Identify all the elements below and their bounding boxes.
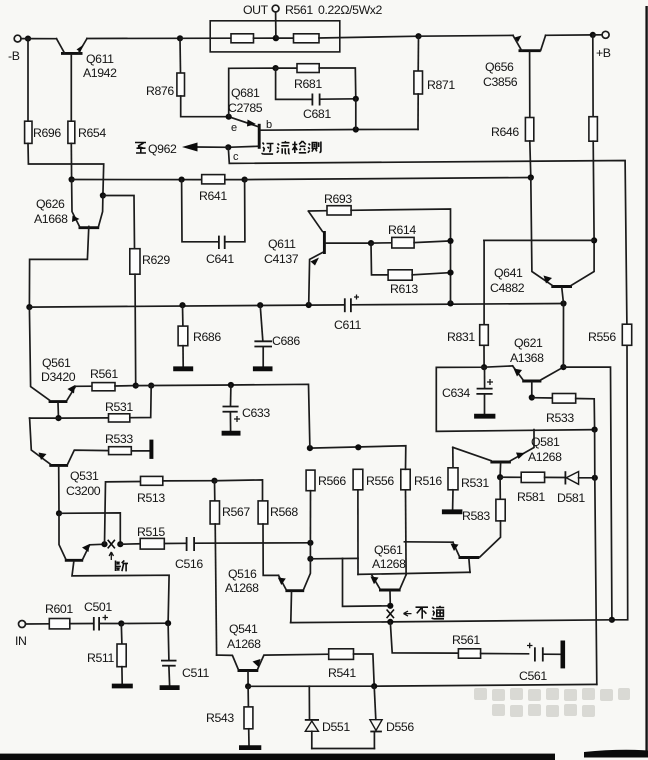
resistor (right of R646, +B dropper) bbox=[589, 35, 598, 241]
wire bbox=[59, 513, 120, 544]
node R614 left bbox=[368, 240, 374, 246]
transistor Q681 C2785 bbox=[228, 86, 356, 163]
svg-text:R654: R654 bbox=[78, 126, 106, 140]
capacitor C634 bbox=[442, 367, 493, 414]
node bbox=[353, 126, 359, 132]
node Q561 base bottom bbox=[387, 619, 393, 625]
wire bbox=[245, 178, 531, 180]
svg-text:A1668: A1668 bbox=[34, 212, 68, 226]
node R533 wire junction bbox=[592, 427, 598, 433]
label butong (no continuity, hand glyphs) bbox=[416, 606, 445, 619]
node Q681 collector bbox=[225, 144, 231, 150]
wire bbox=[309, 543, 311, 559]
capacitor C681 bbox=[276, 68, 356, 121]
node R531 riser bbox=[148, 383, 154, 389]
ground C633 bbox=[222, 431, 241, 436]
wire mid rail left of C611 bbox=[29, 305, 343, 307]
diode D556 bbox=[370, 686, 414, 748]
ground R531 bbox=[442, 509, 463, 514]
transistor Q581 A1268 bbox=[453, 430, 562, 478]
terminal OUT bbox=[243, 3, 383, 38]
svg-text:Q681: Q681 bbox=[231, 86, 260, 100]
svg-text:R876: R876 bbox=[146, 84, 174, 98]
resistor R516 bbox=[401, 469, 443, 574]
node C516 right / R566 bottom bbox=[307, 540, 313, 546]
node Q611 emitter rail bbox=[306, 302, 312, 308]
svg-text:C4137: C4137 bbox=[264, 252, 299, 266]
transistor Q626 A1668 bbox=[29, 180, 103, 308]
resistor R614 bbox=[371, 223, 451, 248]
resistor R696 bbox=[25, 39, 104, 196]
transistor Q541 A1268 bbox=[217, 622, 329, 686]
svg-text:Q516: Q516 bbox=[228, 567, 257, 581]
node -B junction bbox=[25, 36, 31, 42]
resistor R556 (right column) bbox=[588, 324, 632, 620]
resistor R511 bbox=[87, 624, 126, 684]
svg-text:R516: R516 bbox=[414, 474, 442, 488]
svg-text:C3200: C3200 bbox=[66, 484, 101, 498]
svg-text:R561: R561 bbox=[90, 367, 118, 381]
wire R533 column down bbox=[595, 430, 597, 685]
node C633 top bbox=[228, 382, 234, 388]
svg-text:Q621: Q621 bbox=[514, 336, 543, 350]
svg-text:Q962: Q962 bbox=[148, 142, 177, 156]
resistor R566 bbox=[306, 470, 346, 543]
wire bbox=[355, 99, 357, 130]
svg-text:0.22Ω/5Wx2: 0.22Ω/5Wx2 bbox=[318, 3, 383, 17]
node D556 top bbox=[371, 683, 377, 689]
node right column junction bbox=[609, 617, 615, 623]
wire bbox=[21, 38, 57, 40]
node mid rail left bbox=[26, 304, 32, 310]
capacitor C641 bbox=[182, 180, 245, 266]
node D581 right bbox=[592, 475, 598, 481]
svg-text:R556: R556 bbox=[588, 330, 616, 344]
transistor Q531 C3200 bbox=[30, 418, 109, 513]
node R686 top bbox=[179, 302, 185, 308]
svg-text:R613: R613 bbox=[390, 282, 418, 296]
wire bbox=[229, 68, 276, 117]
svg-text:b: b bbox=[266, 119, 272, 131]
resistor R583 bbox=[462, 477, 505, 557]
node +B junction bbox=[590, 32, 596, 38]
node Q641 base rail bbox=[560, 300, 566, 306]
node Q561 base bbox=[55, 415, 61, 421]
svg-text:IN: IN bbox=[15, 634, 27, 648]
svg-text:Q656: Q656 bbox=[485, 60, 514, 74]
node R629 bottom bbox=[133, 383, 139, 389]
node bbox=[177, 35, 183, 41]
svg-text:R831: R831 bbox=[447, 330, 475, 344]
node X left bbox=[101, 541, 107, 547]
svg-text:-B: -B bbox=[8, 49, 20, 63]
resistor R531 (left) bbox=[59, 386, 152, 422]
wire bbox=[312, 748, 375, 750]
svg-text:R531: R531 bbox=[105, 400, 133, 414]
resistor R613 bbox=[371, 243, 451, 296]
node R613 R614 right rail bbox=[447, 300, 453, 306]
svg-text:R686: R686 bbox=[193, 330, 221, 344]
capacitor C561 bbox=[519, 643, 561, 683]
wire bbox=[136, 384, 231, 387]
wire bbox=[562, 304, 564, 368]
svg-text:C4882: C4882 bbox=[490, 281, 525, 295]
svg-text:C501: C501 bbox=[84, 600, 112, 614]
node Q626 collector bbox=[100, 192, 106, 198]
wire bbox=[419, 34, 514, 37]
node R646 bottom junction bbox=[528, 174, 534, 180]
chassis bar R533 bbox=[149, 440, 153, 459]
svg-text:A1942: A1942 bbox=[83, 66, 117, 80]
node Q531 base bbox=[56, 510, 62, 516]
wire bbox=[121, 622, 168, 624]
svg-text:Q611: Q611 bbox=[86, 52, 114, 66]
svg-text:R629: R629 bbox=[142, 253, 170, 267]
node Q681 emitter bbox=[226, 114, 232, 120]
resistor R601 bbox=[26, 602, 93, 629]
capacitor C633 bbox=[223, 385, 271, 431]
wire C633 node riser bbox=[231, 384, 310, 448]
transistor Q561 D3420 bbox=[29, 307, 75, 418]
node R831 bottom / C634 top bbox=[481, 364, 487, 370]
ground R511 bbox=[112, 684, 133, 689]
svg-text:C3856: C3856 bbox=[483, 75, 518, 89]
svg-text:C2785: C2785 bbox=[228, 101, 263, 115]
svg-text:c: c bbox=[233, 151, 239, 163]
svg-text:Q641: Q641 bbox=[494, 266, 523, 280]
wire bottom bias net bbox=[248, 684, 597, 686]
svg-text:C681: C681 bbox=[303, 107, 331, 121]
ground R686 bbox=[173, 366, 193, 371]
svg-text:R693: R693 bbox=[324, 192, 352, 206]
node OUT junction bbox=[273, 35, 279, 41]
terminal IN bbox=[15, 621, 27, 649]
wire bbox=[87, 37, 180, 39]
node X right bbox=[117, 541, 123, 547]
resistor R541 bbox=[328, 649, 374, 686]
svg-text:D3420: D3420 bbox=[41, 370, 76, 384]
resistor R531 (right) bbox=[448, 447, 489, 510]
diode D581 bbox=[557, 471, 595, 505]
transistor Q531 lower (input stage) bbox=[59, 513, 169, 623]
svg-text:R871: R871 bbox=[427, 78, 455, 92]
resistor R543 bbox=[206, 686, 253, 745]
resistor R513 bbox=[105, 476, 215, 544]
ground R543 bbox=[239, 745, 261, 750]
wire to Q962 arrow bbox=[148, 142, 228, 156]
watermark bbox=[474, 688, 630, 717]
svg-text:R566: R566 bbox=[318, 474, 346, 488]
svg-text:D556: D556 bbox=[386, 720, 414, 734]
node R681 left bbox=[273, 65, 279, 71]
chassis bar C561 bbox=[560, 641, 565, 669]
wire Q681 base to R871 bbox=[356, 128, 418, 130]
svg-text:C641: C641 bbox=[206, 252, 234, 266]
svg-text:R531: R531 bbox=[461, 476, 489, 490]
svg-text:R646: R646 bbox=[491, 125, 519, 139]
resistor R567 bbox=[210, 481, 250, 655]
wire bbox=[563, 367, 612, 620]
transistor Q561 companion (right) bbox=[404, 542, 479, 573]
svg-text:D581: D581 bbox=[557, 491, 585, 505]
svg-text:R561: R561 bbox=[452, 633, 480, 647]
ground C634 bbox=[474, 414, 495, 419]
svg-text:A1268: A1268 bbox=[225, 581, 259, 595]
resistor R681 bbox=[276, 64, 356, 99]
wire bbox=[546, 34, 593, 36]
resistor R533 (left) bbox=[105, 432, 150, 455]
svg-text:OUT: OUT bbox=[243, 3, 269, 17]
wire bbox=[343, 558, 391, 606]
arrow to break bbox=[109, 552, 113, 560]
resistor R561 (0.22 ohm right) bbox=[276, 34, 319, 43]
node R567 top bbox=[211, 478, 217, 484]
svg-text:R567: R567 bbox=[222, 505, 250, 519]
svg-text:Q561: Q561 bbox=[42, 356, 71, 370]
label zhi Q962 (hand glyph) bbox=[135, 143, 146, 154]
label guoliu jiance (overcurrent detect, hand glyphs) bbox=[262, 141, 321, 154]
resistor R641 bbox=[199, 175, 245, 203]
node C686 top bbox=[257, 302, 263, 308]
svg-text:R561: R561 bbox=[285, 3, 313, 17]
resistor R871 bbox=[414, 36, 455, 129]
svg-text:Q581: Q581 bbox=[531, 435, 560, 449]
svg-text:R515: R515 bbox=[137, 525, 165, 539]
resistor R686 bbox=[178, 305, 221, 366]
node input bbox=[118, 620, 124, 626]
ground C686 bbox=[253, 366, 273, 371]
svg-text:C561: C561 bbox=[519, 669, 547, 683]
svg-text:A1268: A1268 bbox=[227, 637, 261, 651]
wire bbox=[310, 557, 358, 559]
node Q541 base bbox=[245, 683, 251, 689]
svg-text:+B: +B bbox=[596, 46, 611, 60]
transistor Q611 A1942 bbox=[57, 39, 118, 122]
resistor R581 bbox=[500, 472, 565, 504]
transistor Q516 A1268 bbox=[225, 559, 310, 623]
node Q621 base bbox=[529, 394, 535, 400]
node C511 top bbox=[165, 620, 171, 626]
svg-text:R681: R681 bbox=[294, 77, 322, 91]
transistor Q621 A1368 bbox=[510, 336, 563, 398]
node Q581 base bbox=[497, 474, 503, 480]
wire bbox=[254, 37, 276, 39]
node R556 top bbox=[355, 444, 361, 450]
node Q561 base top bbox=[387, 603, 393, 609]
break mark X (butong) bbox=[387, 610, 394, 619]
svg-text:R511: R511 bbox=[87, 651, 114, 665]
arrow butong bbox=[404, 611, 412, 616]
node R654 bottom bbox=[69, 176, 75, 182]
node R566 top bbox=[307, 445, 313, 451]
svg-text:R543: R543 bbox=[206, 711, 234, 725]
svg-text:Q626: Q626 bbox=[36, 197, 65, 211]
resistor R561 (left) bbox=[76, 367, 136, 391]
svg-text:Q561: Q561 bbox=[374, 543, 403, 557]
svg-text:R513: R513 bbox=[137, 491, 165, 505]
svg-text:C611: C611 bbox=[334, 318, 361, 332]
svg-text:C633: C633 bbox=[242, 406, 270, 420]
label duan (break, hand glyph) bbox=[116, 560, 129, 571]
resistor R515 bbox=[120, 525, 185, 549]
wire overcurrent detect line bbox=[228, 147, 627, 324]
svg-text:R583: R583 bbox=[462, 509, 490, 523]
resistor R568 bbox=[215, 480, 299, 576]
transistor Q656 C3856 bbox=[483, 35, 546, 117]
resistor R831 bbox=[447, 240, 488, 367]
svg-text:R568: R568 bbox=[270, 505, 298, 519]
svg-text:Q531: Q531 bbox=[70, 469, 99, 483]
node Q516 collector tie bbox=[307, 556, 313, 562]
svg-text:R641: R641 bbox=[199, 189, 227, 203]
svg-text:D551: D551 bbox=[322, 720, 350, 734]
capacitor C511 bbox=[161, 623, 209, 685]
resistor R533 (right) bbox=[532, 394, 595, 430]
svg-text:e: e bbox=[231, 122, 237, 134]
svg-text:R601: R601 bbox=[45, 602, 73, 616]
transistor Q611 C4137 bbox=[264, 211, 371, 305]
svg-text:Q541: Q541 bbox=[229, 622, 258, 636]
wire base net (long bottom wire) bbox=[291, 620, 612, 623]
diode D551 bbox=[305, 686, 351, 748]
svg-text:R581: R581 bbox=[517, 490, 545, 504]
border bottom bbox=[0, 754, 555, 760]
node Q641 collector top bbox=[591, 237, 597, 243]
svg-text:R541: R541 bbox=[328, 666, 356, 680]
wire top tie of R566 R556 R516 bbox=[310, 446, 406, 470]
resistor R654 bbox=[68, 121, 106, 179]
resistor R561 (bottom) bbox=[390, 622, 528, 658]
terminal +B bbox=[593, 31, 611, 60]
wire bbox=[319, 36, 419, 38]
wire bbox=[484, 239, 594, 241]
resistor R693 bbox=[309, 192, 451, 303]
svg-text:R556: R556 bbox=[366, 474, 394, 488]
node C681 right bbox=[353, 96, 359, 102]
capacitor C611 bbox=[334, 295, 361, 333]
svg-text:R614: R614 bbox=[388, 223, 416, 237]
transistor Q641 C4882 bbox=[490, 178, 594, 304]
node C641 right bbox=[242, 177, 248, 183]
svg-text:A1368: A1368 bbox=[510, 351, 544, 365]
node R614 right bbox=[447, 238, 453, 244]
node R613 right bbox=[447, 270, 453, 276]
resistor R646 bbox=[491, 118, 534, 178]
resistor R556 (middle) bbox=[353, 469, 394, 574]
resistor R561 (0.22 ohm left) bbox=[180, 34, 254, 43]
svg-text:R533: R533 bbox=[546, 411, 574, 425]
svg-text:R696: R696 bbox=[33, 126, 61, 140]
svg-text:C511: C511 bbox=[182, 666, 209, 680]
svg-text:C634: C634 bbox=[442, 386, 470, 400]
svg-text:C516: C516 bbox=[175, 557, 203, 571]
terminal -B bbox=[8, 35, 21, 63]
resistor R876 bbox=[146, 38, 229, 116]
transistor Q561 A1268 (bottom) bbox=[358, 543, 470, 606]
capacitor C686 bbox=[254, 305, 300, 366]
OUT emitter resistor box 0.22ohm bbox=[210, 21, 340, 52]
node Q621 collector bbox=[560, 364, 566, 370]
resistor R629 bbox=[103, 196, 170, 386]
wire bbox=[436, 366, 594, 432]
wire mid rail right of C611 bbox=[352, 304, 563, 305]
ground C511 bbox=[160, 685, 180, 690]
border right bbox=[645, 6, 647, 753]
capacitor C516 bbox=[175, 537, 310, 571]
svg-text:Q611: Q611 bbox=[268, 237, 296, 251]
svg-text:C686: C686 bbox=[272, 334, 300, 348]
svg-text:A1268: A1268 bbox=[528, 450, 562, 464]
break mark X bbox=[108, 540, 115, 549]
svg-text:R533: R533 bbox=[105, 432, 133, 446]
capacitor C501 bbox=[84, 600, 121, 631]
node C641 left bbox=[179, 177, 185, 183]
wire bbox=[72, 179, 202, 181]
node R871 top bbox=[415, 33, 421, 39]
svg-text:A1268: A1268 bbox=[372, 557, 406, 571]
